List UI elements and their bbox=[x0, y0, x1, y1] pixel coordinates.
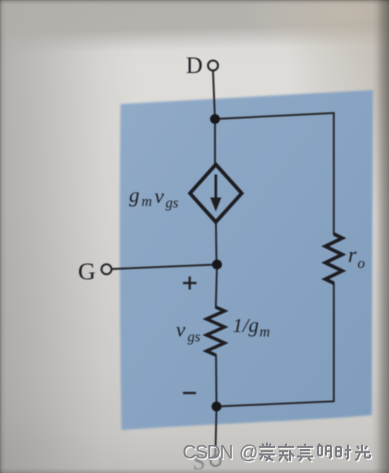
svg-text:CSDN: CSDN bbox=[183, 443, 233, 464]
svg-text:@: @ bbox=[239, 443, 258, 464]
